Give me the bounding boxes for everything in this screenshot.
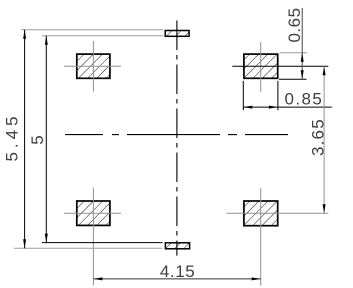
dimension line 5 xyxy=(45,36,48,243)
svg-text:5: 5 xyxy=(28,133,47,144)
pad BR (hatched) xyxy=(244,201,278,226)
extension line top for 5.45 xyxy=(21,29,163,31)
horizontal center axis (dash-dot) xyxy=(65,134,288,136)
centerline vertical pad TR xyxy=(260,42,262,92)
svg-text:0.85: 0.85 xyxy=(285,89,324,108)
dimension line 0.65 xyxy=(301,8,304,79)
dimension line 0.85 xyxy=(243,106,331,109)
centerline cross pad TL xyxy=(64,41,121,92)
centerline cross pad BL xyxy=(64,188,121,286)
pad TR (hatched) xyxy=(244,54,278,78)
svg-text:5.45: 5.45 xyxy=(3,112,22,161)
centerline horizontal pad BR / extension for 3.65 (gray) xyxy=(227,212,329,214)
centerline vertical pad BR / extension for 4.15 xyxy=(260,188,262,286)
extension line top for 5 xyxy=(42,35,163,37)
centerline horizontal pad TR / extension for 3.65 (black) xyxy=(232,65,328,67)
extension line right of pad TR bottom (for 0.65, black) xyxy=(279,78,307,80)
extension lines below pad TR (for 0.85) xyxy=(242,81,244,110)
small pad bottom center (hatched) xyxy=(165,243,189,249)
pad TL (hatched) xyxy=(77,54,110,78)
svg-text:0.65: 0.65 xyxy=(285,7,304,42)
small pad top center (hatched) xyxy=(165,31,189,37)
vertical center axis (dash-dot) xyxy=(176,21,178,256)
dimension line 5.45 xyxy=(23,30,26,248)
pad BL (hatched) xyxy=(77,201,110,225)
dimension line 4.15 xyxy=(93,277,260,280)
extension line right of pad TR top (for 0.65) xyxy=(280,52,308,54)
extension line bottom for 5 (black) xyxy=(42,242,163,244)
dimension line 3.65 xyxy=(323,66,326,213)
svg-text:3.65: 3.65 xyxy=(309,118,328,156)
svg-text:4.15: 4.15 xyxy=(160,262,196,281)
extension line bottom for 5.45 (gray) xyxy=(14,247,163,249)
